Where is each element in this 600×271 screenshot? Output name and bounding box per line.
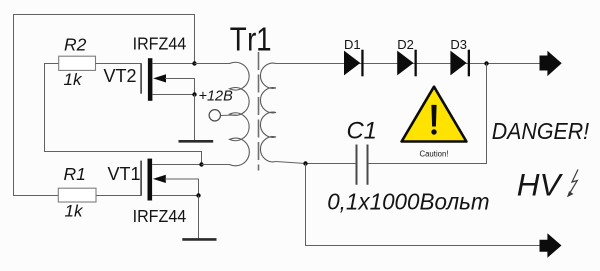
wire VT2 drain to node	[152, 63, 194, 65]
svg-text:R2: R2	[64, 35, 87, 55]
resistor R2	[59, 56, 96, 70]
node VT2 drain junction	[192, 61, 196, 65]
wire R1 right to VT1 gate	[96, 195, 142, 197]
wire VT2 source arrow bend	[165, 79, 195, 95]
svg-text:IRFZ44: IRFZ44	[133, 34, 187, 54]
wire secondary bottom to capacitor left	[276, 162, 357, 164]
transistor VT2 source arrow	[153, 74, 166, 82]
wire bottom return rail to output	[306, 164, 540, 246]
ground (VT2 source)	[179, 140, 214, 143]
diode D1	[344, 51, 360, 76]
svg-text:Caution!: Caution!	[419, 149, 448, 158]
svg-text:D2: D2	[397, 37, 414, 52]
node secondary bottom junction	[303, 161, 307, 165]
transistor VT1 channel bar	[148, 159, 153, 201]
svg-text:D1: D1	[344, 37, 361, 52]
wire VT1 source bottom lead	[152, 195, 198, 197]
resistor R1	[58, 188, 96, 202]
lightning bolt symbol	[570, 170, 578, 194]
diode D3	[450, 51, 466, 76]
node VT1 drain junction	[199, 162, 203, 166]
svg-text:0,1x1000Вольт: 0,1x1000Вольт	[327, 188, 489, 215]
wire VT2 drain node to primary top	[195, 63, 231, 65]
wire VT2 source to ground	[194, 95, 196, 142]
node VT2 source junction	[192, 92, 196, 96]
transformer Tr1 primary winding	[230, 62, 250, 166]
transistor VT2 channel bar	[148, 58, 153, 101]
wire VT2 source bottom lead	[152, 94, 194, 96]
svg-text:1k: 1k	[65, 202, 84, 221]
node VT1 source junction	[196, 193, 200, 197]
wire VT1 drain node to primary bottom	[202, 164, 231, 166]
wire VT1 drain to node	[152, 164, 201, 166]
wire outer loop from VT2 drain top rail down left side to R1	[14, 15, 195, 196]
transistor VT1 gate electrode	[140, 161, 142, 196]
node rectifier output junction	[484, 61, 488, 65]
svg-text:C1: C1	[347, 117, 377, 144]
svg-text:IRFZ44: IRFZ44	[133, 206, 187, 226]
wire junction down to capacitor right side	[368, 64, 487, 164]
wire VT1 source to ground	[198, 196, 200, 240]
svg-text:HV: HV	[517, 166, 564, 202]
transistor VT1 source arrow	[153, 175, 166, 183]
svg-text:R1: R1	[64, 164, 86, 184]
output block arrow top (HV+)	[540, 51, 562, 76]
transistor VT2 gate electrode	[140, 64, 142, 94]
exclamation mark bar	[431, 105, 436, 127]
capacitor C1 plates	[357, 145, 368, 185]
transformer Tr1 secondary winding	[260, 63, 276, 162]
wire +12V terminal to center tap	[221, 114, 237, 117]
svg-text:DANGER!: DANGER!	[492, 118, 590, 144]
svg-text:+12В: +12В	[199, 89, 234, 105]
wire R2 right to VT2 gate	[96, 63, 142, 65]
diode D2	[397, 51, 413, 76]
svg-text:1k: 1k	[64, 70, 83, 89]
wire HV top rail through diodes	[276, 63, 540, 65]
warning triangle caution sign	[402, 87, 467, 142]
svg-text:VT1: VT1	[108, 164, 141, 184]
svg-text:VT2: VT2	[104, 66, 137, 86]
wire VT1 source arrow bend	[165, 179, 199, 196]
output block arrow bottom (HV-)	[540, 233, 562, 257]
transformer core	[258, 52, 260, 171]
terminal circle +12V	[209, 110, 220, 121]
ground (VT1 source)	[182, 238, 216, 241]
exclamation mark dot	[431, 129, 436, 134]
wire cross-coupling loop from R2 left down to VT1 drain node	[45, 64, 202, 165]
svg-text:Tr1: Tr1	[230, 21, 272, 58]
svg-text:D3: D3	[450, 37, 467, 52]
